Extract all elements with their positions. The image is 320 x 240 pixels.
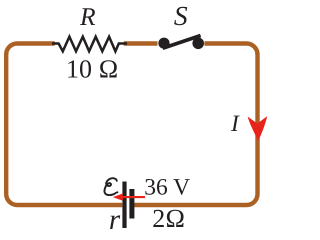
svg-text:2Ω: 2Ω <box>152 204 185 233</box>
svg-text:S: S <box>174 0 188 31</box>
svg-text:r: r <box>109 204 121 236</box>
svg-text:36 V: 36 V <box>144 174 190 200</box>
svg-text:R: R <box>79 2 96 31</box>
svg-text:10 Ω: 10 Ω <box>66 54 118 83</box>
svg-text:I: I <box>230 111 240 137</box>
